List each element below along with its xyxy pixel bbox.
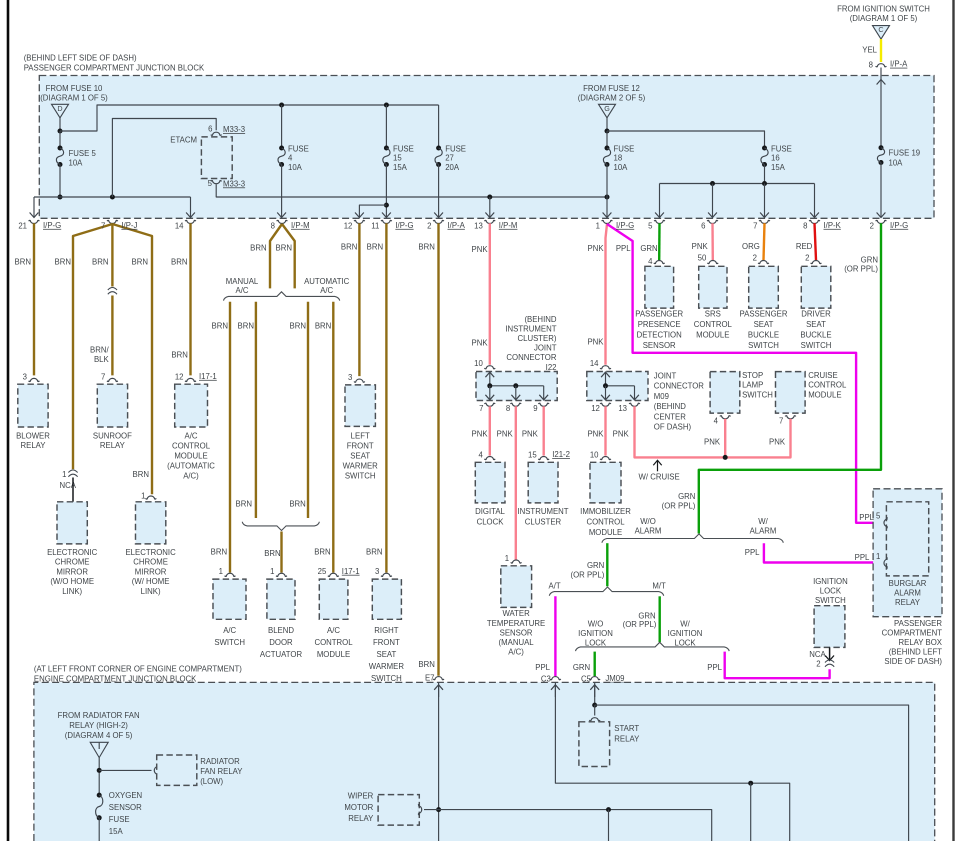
svg-text:I/P-K: I/P-K [824, 221, 842, 230]
svg-text:(W/O HOME: (W/O HOME [50, 577, 94, 586]
svg-text:COMPARTMENT: COMPARTMENT [882, 628, 943, 637]
svg-text:(DIAGRAM 1 OF 5): (DIAGRAM 1 OF 5) [40, 94, 108, 103]
svg-text:PPL: PPL [535, 663, 550, 672]
svg-text:LINK): LINK) [62, 587, 82, 596]
svg-text:SRS: SRS [705, 310, 721, 319]
svg-text:1: 1 [62, 470, 66, 479]
svg-text:MIRROR: MIRROR [135, 567, 167, 576]
svg-text:3: 3 [23, 372, 27, 381]
svg-text:11: 11 [371, 222, 379, 231]
svg-text:BRN: BRN [290, 321, 306, 330]
svg-text:SENSOR: SENSOR [500, 628, 533, 637]
svg-text:10A: 10A [69, 159, 84, 168]
svg-text:(OR PPL): (OR PPL) [571, 570, 605, 579]
svg-text:CONNECTOR: CONNECTOR [506, 353, 556, 362]
svg-text:LINK): LINK) [141, 587, 161, 596]
svg-text:ALARM: ALARM [750, 526, 777, 535]
svg-text:INSTRUMENT: INSTRUMENT [505, 324, 556, 333]
svg-text:LAMP: LAMP [742, 381, 763, 390]
svg-text:PNK: PNK [472, 339, 489, 348]
svg-text:CLOCK: CLOCK [477, 517, 505, 526]
svg-text:SWITCH: SWITCH [748, 341, 779, 350]
svg-text:PASSENGER: PASSENGER [894, 619, 942, 628]
svg-text:7: 7 [479, 404, 483, 413]
svg-text:MODULE: MODULE [174, 451, 207, 460]
svg-text:BRN: BRN [211, 548, 227, 557]
svg-text:BUCKLE: BUCKLE [748, 330, 779, 339]
svg-text:15: 15 [393, 154, 402, 163]
svg-text:M/T: M/T [652, 581, 666, 590]
svg-text:I17-1: I17-1 [342, 567, 360, 576]
svg-text:SWITCH: SWITCH [742, 391, 773, 400]
svg-text:ACTUATOR: ACTUATOR [260, 650, 303, 659]
svg-text:C: C [878, 25, 883, 34]
svg-text:2: 2 [870, 222, 874, 231]
svg-text:2: 2 [753, 253, 757, 262]
svg-text:PNK: PNK [769, 438, 786, 447]
svg-text:8: 8 [506, 404, 510, 413]
svg-text:PNK: PNK [472, 245, 489, 254]
svg-text:ELECTRONIC: ELECTRONIC [47, 548, 98, 557]
svg-text:1: 1 [876, 552, 880, 561]
svg-text:SWITCH: SWITCH [345, 471, 376, 480]
svg-text:4: 4 [288, 154, 293, 163]
svg-text:14: 14 [590, 359, 599, 368]
svg-text:BRN: BRN [264, 549, 280, 558]
svg-text:ORG: ORG [742, 242, 760, 251]
svg-text:FUSE: FUSE [393, 145, 414, 154]
svg-text:(DIAGRAM 2 OF 5): (DIAGRAM 2 OF 5) [578, 94, 646, 103]
svg-text:W/ CRUISE: W/ CRUISE [639, 472, 680, 481]
svg-text:SUNROOF: SUNROOF [93, 431, 132, 440]
svg-text:SENSOR: SENSOR [643, 341, 676, 350]
svg-text:A/T: A/T [549, 581, 561, 590]
svg-text:21: 21 [18, 222, 27, 231]
svg-text:GRN: GRN [861, 255, 878, 264]
svg-text:10A: 10A [614, 163, 629, 172]
svg-text:BRN: BRN [133, 470, 149, 479]
svg-text:CHROME: CHROME [133, 558, 168, 567]
svg-text:W/: W/ [680, 620, 690, 629]
svg-text:BRN: BRN [341, 242, 357, 251]
svg-text:15A: 15A [109, 827, 124, 836]
svg-text:I/P-G: I/P-G [616, 221, 634, 230]
svg-text:BRN: BRN [55, 258, 71, 267]
svg-text:14: 14 [175, 222, 184, 231]
svg-text:RELAY: RELAY [895, 598, 921, 607]
svg-text:(BEHIND: (BEHIND [654, 402, 686, 411]
svg-text:PNK: PNK [497, 430, 514, 439]
svg-text:FAN RELAY: FAN RELAY [200, 767, 243, 776]
svg-text:5: 5 [648, 222, 653, 231]
svg-text:(OR PPL): (OR PPL) [662, 501, 696, 510]
svg-text:ALARM: ALARM [894, 589, 921, 598]
svg-text:IMMOBILIZER: IMMOBILIZER [580, 507, 631, 516]
svg-text:(BEHIND LEFT: (BEHIND LEFT [889, 648, 943, 657]
svg-text:RIGHT: RIGHT [374, 626, 398, 635]
svg-text:GRN: GRN [640, 244, 657, 253]
svg-text:I22: I22 [546, 363, 557, 372]
svg-text:CONTROL: CONTROL [808, 381, 847, 390]
svg-text:WIPER: WIPER [348, 791, 374, 800]
svg-text:3: 3 [375, 567, 379, 576]
svg-text:SWITCH: SWITCH [214, 638, 245, 647]
svg-text:WARMER: WARMER [343, 461, 379, 470]
svg-text:PASSENGER: PASSENGER [635, 310, 683, 319]
svg-text:PNK: PNK [588, 244, 605, 253]
svg-text:7: 7 [753, 222, 757, 231]
svg-text:G: G [604, 104, 610, 113]
svg-text:ELECTRONIC: ELECTRONIC [125, 548, 176, 557]
svg-text:I/P-A: I/P-A [448, 221, 466, 230]
svg-text:OF DASH): OF DASH) [654, 423, 692, 432]
svg-text:PNK: PNK [587, 338, 604, 347]
svg-text:BURGLAR: BURGLAR [889, 579, 927, 588]
svg-text:BRN: BRN [171, 258, 187, 267]
svg-text:A/C: A/C [236, 286, 249, 295]
svg-text:CONTROL: CONTROL [172, 441, 211, 450]
svg-text:PASSENGER: PASSENGER [740, 310, 788, 319]
svg-text:13: 13 [618, 404, 627, 413]
svg-text:25: 25 [318, 567, 327, 576]
svg-text:WATER: WATER [502, 609, 530, 618]
svg-text:I/P-G: I/P-G [395, 221, 413, 230]
svg-text:15: 15 [528, 450, 537, 459]
svg-text:CONTROL: CONTROL [314, 638, 353, 647]
svg-text:A/C: A/C [327, 626, 340, 635]
svg-text:SEAT: SEAT [377, 650, 397, 659]
svg-text:BRN: BRN [418, 242, 434, 251]
svg-text:E7: E7 [425, 674, 435, 683]
svg-text:CRUISE: CRUISE [808, 371, 837, 380]
svg-text:BRN: BRN [132, 258, 148, 267]
svg-text:16: 16 [771, 154, 780, 163]
svg-text:5: 5 [876, 512, 881, 521]
svg-text:8: 8 [271, 222, 275, 231]
svg-text:I/P-G: I/P-G [43, 221, 61, 230]
svg-text:WARMER: WARMER [369, 662, 405, 671]
svg-text:PNK: PNK [613, 430, 630, 439]
svg-text:6: 6 [701, 222, 705, 231]
svg-text:LOCK: LOCK [820, 587, 842, 596]
svg-text:10A: 10A [288, 163, 303, 172]
svg-text:RELAY (HIGH-2): RELAY (HIGH-2) [69, 721, 128, 730]
svg-text:PNK: PNK [692, 242, 709, 251]
svg-text:8: 8 [869, 61, 873, 70]
svg-text:PASSENGER COMPARTMENT JUNCTION: PASSENGER COMPARTMENT JUNCTION BLOCK [24, 64, 205, 73]
svg-text:BRN: BRN [15, 258, 31, 267]
svg-text:12: 12 [175, 372, 184, 381]
svg-text:JOINT: JOINT [534, 344, 557, 353]
svg-text:7: 7 [779, 416, 783, 425]
svg-text:PPL: PPL [745, 548, 760, 557]
svg-text:PPL: PPL [859, 513, 874, 522]
svg-text:BRN: BRN [314, 548, 330, 557]
svg-text:SEAT: SEAT [350, 451, 370, 460]
svg-text:BRN: BRN [289, 499, 305, 508]
svg-text:BLEND: BLEND [268, 626, 294, 635]
svg-text:TEMPERATURE: TEMPERATURE [487, 619, 545, 628]
svg-text:SENSOR: SENSOR [109, 803, 142, 812]
svg-text:A/C: A/C [320, 286, 333, 295]
svg-text:9: 9 [533, 404, 537, 413]
svg-text:I/P-A: I/P-A [890, 60, 908, 69]
svg-text:10: 10 [474, 359, 483, 368]
svg-text:W/: W/ [758, 517, 768, 526]
svg-text:BRN: BRN [315, 321, 331, 330]
svg-text:FUSE: FUSE [614, 145, 635, 154]
svg-text:FROM FUSE 10: FROM FUSE 10 [46, 84, 103, 93]
svg-text:FROM RADIATOR FAN: FROM RADIATOR FAN [58, 711, 140, 720]
svg-text:CONTROL: CONTROL [694, 320, 733, 329]
svg-text:13: 13 [474, 222, 483, 231]
svg-text:SWITCH: SWITCH [815, 596, 846, 605]
svg-text:START: START [614, 724, 639, 733]
svg-text:BRN: BRN [418, 660, 434, 669]
svg-text:PPL: PPL [616, 244, 631, 253]
svg-text:1: 1 [270, 567, 274, 576]
svg-text:JM09: JM09 [605, 674, 624, 683]
svg-text:PNK: PNK [522, 430, 539, 439]
svg-text:PNK: PNK [472, 430, 489, 439]
svg-text:FUSE: FUSE [445, 145, 466, 154]
svg-text:A/C: A/C [185, 431, 198, 440]
svg-text:D: D [57, 104, 62, 113]
svg-text:7: 7 [101, 222, 105, 231]
svg-text:BRN: BRN [171, 351, 187, 360]
svg-text:ETACM: ETACM [170, 135, 197, 144]
svg-text:RED: RED [796, 242, 813, 251]
svg-text:MIRROR: MIRROR [56, 567, 88, 576]
svg-text:1: 1 [141, 491, 145, 500]
svg-text:6: 6 [208, 125, 212, 134]
svg-text:I/P-M: I/P-M [499, 221, 518, 230]
svg-text:2: 2 [816, 660, 820, 669]
svg-text:CENTER: CENTER [654, 413, 686, 422]
svg-text:A/C: A/C [223, 626, 236, 635]
svg-text:1: 1 [505, 554, 509, 563]
svg-text:BLOWER: BLOWER [16, 431, 50, 440]
svg-text:PRESENCE: PRESENCE [638, 320, 681, 329]
svg-text:IGNITION: IGNITION [668, 629, 703, 638]
svg-text:GRN: GRN [678, 492, 695, 501]
svg-text:1: 1 [219, 567, 223, 576]
svg-text:CLUSTER: CLUSTER [525, 517, 562, 526]
svg-text:(MANUAL: (MANUAL [499, 638, 535, 647]
svg-text:8: 8 [803, 222, 807, 231]
svg-text:1: 1 [596, 222, 600, 231]
svg-text:4: 4 [478, 450, 483, 459]
svg-text:BUCKLE: BUCKLE [800, 330, 831, 339]
svg-text:2: 2 [805, 253, 809, 262]
svg-text:W/O: W/O [640, 517, 656, 526]
svg-text:12: 12 [344, 222, 353, 231]
svg-text:(BEHIND LEFT SIDE OF DASH): (BEHIND LEFT SIDE OF DASH) [24, 54, 137, 63]
svg-text:FUSE 19: FUSE 19 [889, 149, 921, 158]
svg-text:LEFT: LEFT [351, 431, 370, 440]
svg-text:(AT LEFT FRONT CORNER OF ENGIN: (AT LEFT FRONT CORNER OF ENGINE COMPARTM… [34, 665, 242, 674]
svg-text:10: 10 [590, 450, 599, 459]
svg-text:MOTOR: MOTOR [344, 803, 373, 812]
svg-text:ALARM: ALARM [635, 526, 662, 535]
svg-text:I17-1: I17-1 [199, 372, 217, 381]
svg-text:AUTOMATIC: AUTOMATIC [304, 277, 350, 286]
svg-text:12: 12 [591, 404, 600, 413]
svg-text:5: 5 [208, 179, 213, 188]
svg-text:BRN: BRN [367, 242, 383, 251]
svg-text:LOCK: LOCK [585, 638, 607, 647]
svg-text:50: 50 [698, 253, 707, 262]
svg-text:STOP: STOP [742, 371, 763, 380]
svg-text:MANUAL: MANUAL [226, 277, 259, 286]
svg-text:I21-2: I21-2 [552, 450, 570, 459]
svg-text:MODULE: MODULE [589, 528, 622, 537]
svg-text:(W/ HOME: (W/ HOME [132, 577, 170, 586]
svg-text:NCA: NCA [809, 650, 826, 659]
svg-text:BRN: BRN [250, 244, 266, 253]
svg-text:BRN: BRN [236, 499, 252, 508]
svg-text:YEL: YEL [862, 46, 877, 55]
svg-text:MODULE: MODULE [696, 330, 729, 339]
svg-text:(BEHIND: (BEHIND [524, 315, 556, 324]
svg-text:3: 3 [348, 373, 352, 382]
svg-text:(OR PPL): (OR PPL) [623, 620, 657, 629]
svg-text:PPL: PPL [707, 663, 722, 672]
svg-text:(OR PPL): (OR PPL) [844, 265, 878, 274]
svg-text:SWITCH: SWITCH [801, 341, 832, 350]
svg-text:15A: 15A [393, 163, 408, 172]
svg-text:FRONT: FRONT [347, 441, 374, 450]
svg-text:LOCK: LOCK [674, 638, 696, 647]
svg-text:SEAT: SEAT [806, 320, 826, 329]
svg-text:18: 18 [614, 154, 623, 163]
svg-text:FRONT: FRONT [373, 638, 400, 647]
svg-text:FUSE 5: FUSE 5 [69, 149, 97, 158]
svg-text:MODULE: MODULE [317, 650, 350, 659]
svg-text:(DIAGRAM 1 OF 5): (DIAGRAM 1 OF 5) [850, 14, 918, 23]
svg-text:(AUTOMATIC: (AUTOMATIC [167, 461, 215, 470]
svg-text:MODULE: MODULE [808, 391, 841, 400]
svg-text:DETECTION: DETECTION [637, 330, 682, 339]
svg-text:FROM IGNITION SWITCH: FROM IGNITION SWITCH [837, 4, 930, 13]
svg-text:15A: 15A [771, 163, 786, 172]
svg-text:I/P-J: I/P-J [121, 221, 137, 230]
svg-text:CHROME: CHROME [55, 558, 90, 567]
svg-text:BRN: BRN [276, 244, 292, 253]
svg-text:RELAY: RELAY [348, 814, 374, 823]
svg-text:CONNECTOR: CONNECTOR [654, 382, 704, 391]
svg-text:RELAY BOX: RELAY BOX [899, 638, 943, 647]
svg-text:OXYGEN: OXYGEN [109, 791, 142, 800]
svg-text:PNK: PNK [704, 438, 721, 447]
svg-text:2: 2 [427, 222, 431, 231]
svg-text:RELAY: RELAY [614, 735, 640, 744]
svg-text:NCA: NCA [60, 481, 77, 490]
svg-text:4: 4 [648, 257, 653, 266]
svg-text:4: 4 [714, 416, 719, 425]
svg-text:BLK: BLK [94, 355, 110, 364]
svg-text:FROM FUSE 12: FROM FUSE 12 [583, 84, 640, 93]
svg-text:7: 7 [101, 372, 105, 381]
svg-text:BRN: BRN [238, 321, 254, 330]
svg-text:BRN: BRN [212, 321, 228, 330]
svg-text:M33-3: M33-3 [223, 125, 245, 134]
svg-text:FUSE: FUSE [288, 145, 309, 154]
svg-text:RELAY: RELAY [21, 441, 47, 450]
svg-text:GRN: GRN [573, 663, 590, 672]
svg-text:PPL: PPL [855, 553, 870, 562]
svg-text:IGNITION: IGNITION [578, 629, 613, 638]
svg-text:A/C): A/C) [183, 471, 199, 480]
svg-text:JOINT: JOINT [654, 372, 677, 381]
svg-text:BRN/: BRN/ [90, 345, 109, 354]
svg-text:(LOW): (LOW) [200, 777, 223, 786]
svg-text:M09: M09 [654, 392, 669, 401]
svg-text:CLUSTER): CLUSTER) [518, 334, 557, 343]
svg-text:W/O: W/O [588, 620, 604, 629]
svg-text:CONTROL: CONTROL [586, 517, 625, 526]
svg-text:RADIATOR: RADIATOR [200, 757, 240, 766]
svg-text:20A: 20A [445, 163, 460, 172]
svg-text:I/P-G: I/P-G [890, 221, 908, 230]
svg-text:FUSE: FUSE [109, 815, 130, 824]
svg-text:(DIAGRAM 4 OF 5): (DIAGRAM 4 OF 5) [65, 731, 133, 740]
svg-text:INSTRUMENT: INSTRUMENT [517, 507, 568, 516]
svg-text:FUSE: FUSE [771, 145, 792, 154]
svg-text:A/C): A/C) [508, 648, 524, 657]
svg-text:27: 27 [445, 154, 454, 163]
svg-text:10A: 10A [889, 158, 904, 167]
svg-text:RELAY: RELAY [100, 441, 126, 450]
svg-text:BRN: BRN [366, 548, 382, 557]
svg-text:I/P-M: I/P-M [291, 221, 310, 230]
svg-text:DRIVER: DRIVER [801, 310, 831, 319]
svg-text:BRN: BRN [92, 258, 108, 267]
svg-text:GRN: GRN [587, 561, 604, 570]
svg-text:DOOR: DOOR [269, 638, 293, 647]
svg-text:SIDE OF DASH): SIDE OF DASH) [884, 657, 942, 666]
svg-text:M33-3: M33-3 [223, 179, 245, 188]
svg-text:SEAT: SEAT [754, 320, 774, 329]
svg-text:IGNITION: IGNITION [813, 577, 848, 586]
svg-text:PNK: PNK [587, 430, 604, 439]
svg-text:DIGITAL: DIGITAL [475, 507, 505, 516]
